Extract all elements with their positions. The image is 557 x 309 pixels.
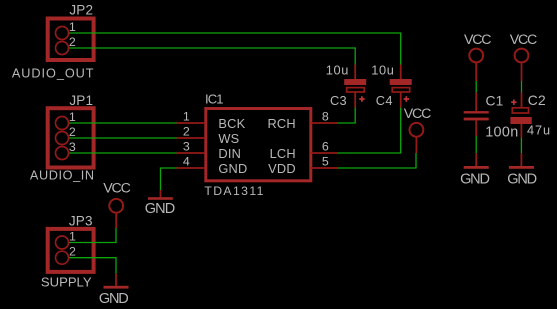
wire JP2 pin2 to C3 top [62,48,355,65]
svg-text:SUPPLY: SUPPLY [41,274,92,289]
svg-text:VCC: VCC [510,32,537,48]
capacitor C2 bottom plate [510,117,531,124]
wire JP3 pin2 to ground [62,258,116,274]
capacitor C4 bottom plate [392,88,410,92]
svg-text:C2: C2 [528,93,546,108]
svg-text:VCC: VCC [404,106,431,122]
capacitor C4 plus sign [404,96,409,101]
svg-text:AUDIO_OUT: AUDIO_OUT [12,67,95,81]
svg-text:2: 2 [183,124,190,138]
connector JP3 box [48,229,94,272]
svg-text:RCH: RCH [267,116,295,131]
connector JP1 box [48,108,94,167]
wire IC1 pin6 LCH to C4 bottom [338,108,401,154]
IC1 pin 5 stub [311,167,338,169]
capacitor C3 plus sign [359,96,364,101]
capacitor C3 bottom plate [347,88,365,92]
connector JP1 pin circle 2 [56,132,69,145]
svg-text:1: 1 [183,109,190,123]
wire VCC to C1 top [475,81,477,93]
svg-text:47u: 47u [527,122,551,137]
svg-text:DIN: DIN [218,146,241,161]
svg-text:1: 1 [69,230,76,244]
IC1 pin 1 stub [177,122,206,124]
capacitor C4 bottom pin stub [400,93,402,108]
power VCC symbol above C2 [515,49,529,63]
svg-text:100n: 100n [485,124,518,140]
connector JP1 pin circle 3 [56,147,69,160]
capacitor C2 top pin stub [521,93,523,108]
svg-text:4: 4 [183,154,190,168]
svg-text:5: 5 [322,154,329,168]
capacitor C3 top plate [344,79,366,85]
capacitor C1 plate upper [464,111,489,113]
connector JP3 pin circle 2 [56,251,69,264]
ground symbol at JP3 [115,274,117,286]
svg-text:C3: C3 [330,93,347,108]
svg-text:IC1: IC1 [205,91,223,106]
svg-text:TDA1311: TDA1311 [204,184,264,198]
capacitor C1 bottom pin stub [475,120,477,136]
IC1 pin 4 stub [177,167,206,169]
capacitor C1 plate lower [464,118,489,121]
wire JP1 pin1 to IC1 BCK [62,122,177,124]
svg-text:VCC: VCC [464,32,491,48]
svg-text:GND: GND [145,201,175,217]
wire IC1 pin5 VDD to VCC [338,153,417,168]
capacitor C1 top pin stub [475,93,477,112]
capacitor C4 top plate [390,79,412,85]
svg-text:10u: 10u [371,63,394,78]
capacitor C3 bottom pin stub [354,93,356,108]
wire C1 bottom to ground [475,136,477,153]
svg-text:LCH: LCH [270,146,296,161]
wire VCC to C2 top [521,81,523,93]
svg-text:2: 2 [69,125,76,139]
connector JP2 box [48,19,94,61]
ground symbol under C2 [520,153,522,166]
connector JP1 pin circle 1 [56,117,69,130]
wire JP3 pin1 to VCC [62,228,116,243]
ground symbol at IC1 pin4 [160,190,162,197]
svg-text:1: 1 [69,110,76,124]
connector JP2 pin circle 1 [56,27,69,40]
svg-text:GND: GND [460,172,489,188]
svg-text:C4: C4 [376,93,393,108]
svg-text:8: 8 [322,109,329,123]
wire IC1 pin8 RCH to C3 bottom [338,108,356,124]
svg-text:C1: C1 [486,94,504,109]
wire JP2 pin1 to C4 top [62,33,401,65]
svg-text:GND: GND [218,161,247,176]
IC1 pin 3 stub [177,152,206,154]
ground symbol under C1 [475,153,477,166]
connector JP3 pin circle 1 [56,236,69,249]
capacitor C2 plus sign [511,100,516,105]
svg-text:VCC: VCC [103,181,130,197]
svg-text:JP1: JP1 [69,93,93,108]
wire IC1 pin4 GND to ground [161,168,177,190]
svg-text:6: 6 [322,139,329,153]
power VCC symbol at JP3 [109,199,123,213]
IC1 pin 6 stub [311,152,338,154]
svg-text:3: 3 [183,139,190,153]
power VCC symbol above C1 [469,49,483,63]
svg-text:GND: GND [507,172,536,188]
svg-text:JP3: JP3 [69,213,93,228]
IC IC1 TDA1311 box [206,109,311,181]
wire JP1 pin3 to IC1 DIN [62,152,177,154]
svg-text:WS: WS [218,131,239,146]
capacitor C2 bottom pin stub [520,124,522,137]
capacitor C3 top pin stub [354,65,356,80]
power VCC symbol at IC pin5 [410,123,424,137]
IC1 pin 2 stub [177,137,206,139]
connector JP2 pin circle 2 [56,42,69,55]
svg-text:2: 2 [69,245,76,259]
svg-text:2: 2 [69,35,76,49]
svg-text:BCK: BCK [218,116,245,131]
capacitor C2 top plate [512,108,528,113]
capacitor C4 top pin stub [400,65,402,80]
svg-text:1: 1 [69,20,76,34]
IC1 pin 8 stub [311,122,338,124]
wire JP1 pin2 to IC1 WS [62,137,177,139]
svg-text:VDD: VDD [268,161,296,176]
svg-text:JP2: JP2 [69,3,93,18]
svg-text:3: 3 [69,140,76,154]
svg-text:10u: 10u [326,63,349,78]
svg-text:AUDIO_IN: AUDIO_IN [30,168,95,182]
wire C2 bottom to ground [520,137,522,153]
svg-text:GND: GND [99,291,128,307]
